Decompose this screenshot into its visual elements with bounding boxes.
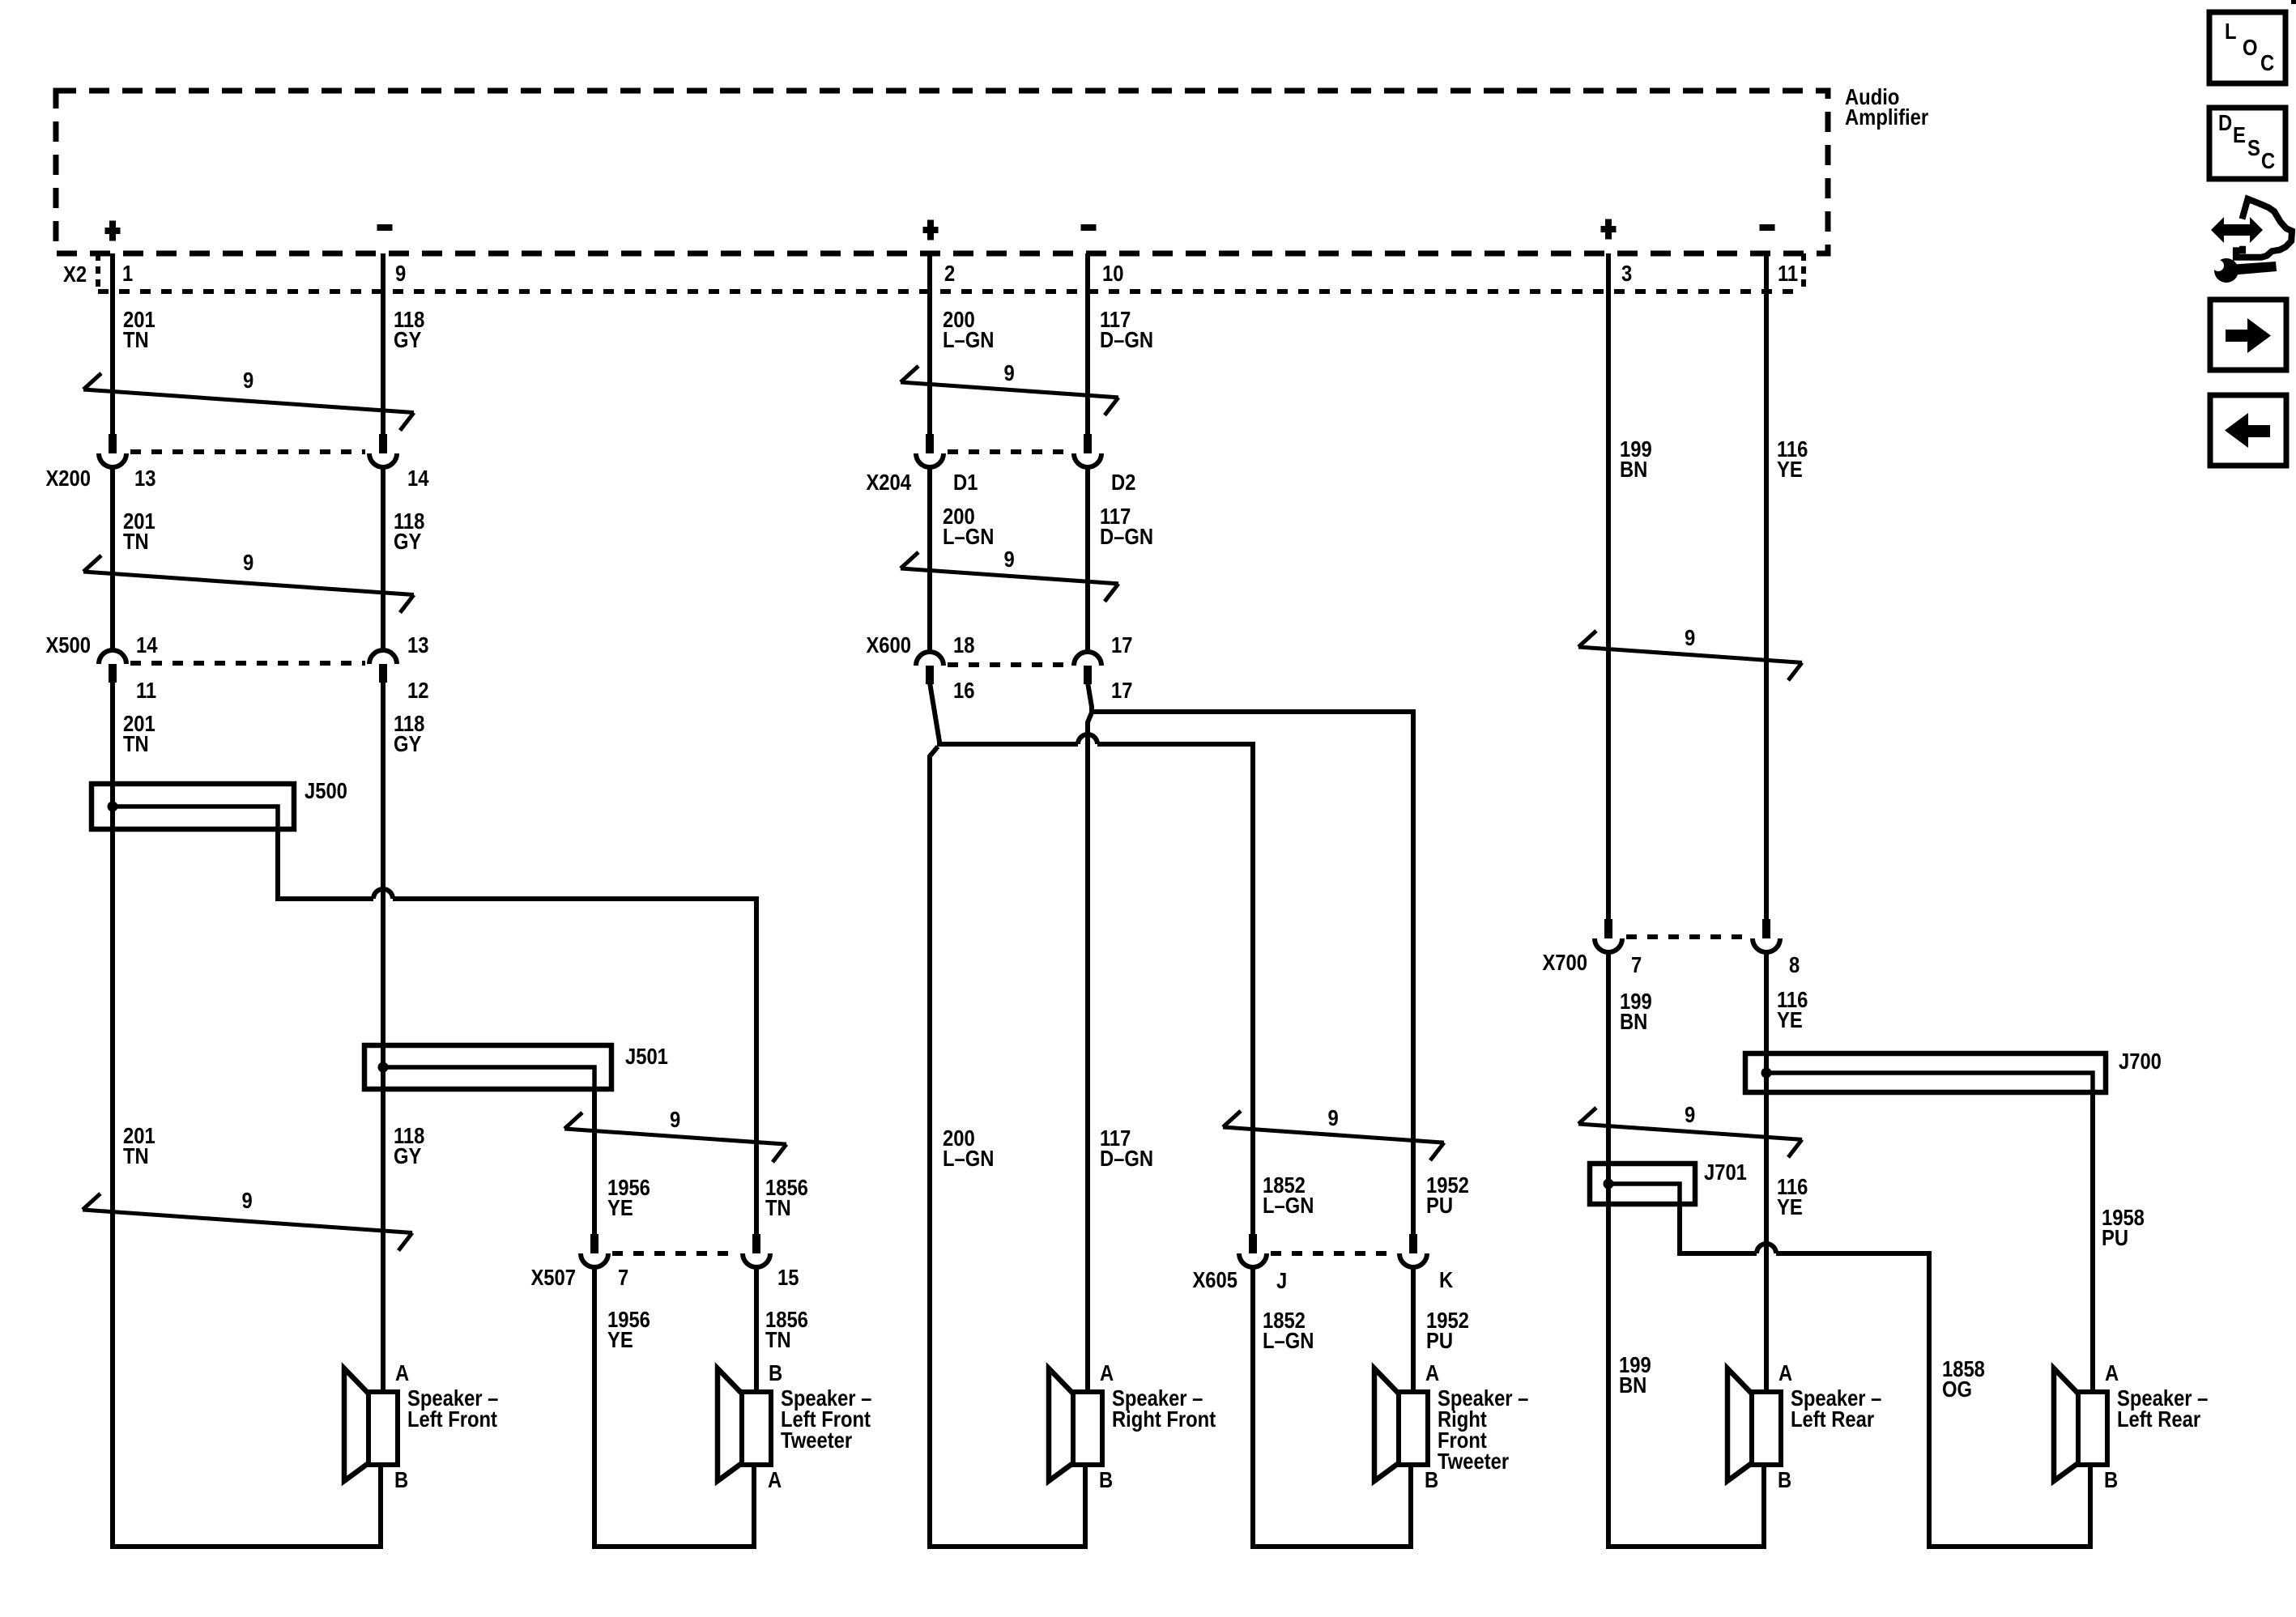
svg-text:GY: GY <box>394 1143 421 1168</box>
svg-text:9: 9 <box>1004 546 1015 572</box>
svg-text:B: B <box>1425 1466 1438 1492</box>
svg-text:11: 11 <box>136 677 156 703</box>
svg-text:13: 13 <box>134 465 155 491</box>
svg-text:B: B <box>1778 1466 1791 1492</box>
svg-text:TN: TN <box>123 528 149 554</box>
svg-text:YE: YE <box>607 1194 633 1220</box>
svg-text:D–GN: D–GN <box>1100 326 1153 352</box>
svg-text:7: 7 <box>1631 951 1642 977</box>
svg-text:TN: TN <box>765 1326 791 1352</box>
svg-text:16: 16 <box>953 677 974 703</box>
svg-text:X605: X605 <box>1192 1266 1237 1292</box>
svg-text:L–GN: L–GN <box>943 523 994 549</box>
svg-text:L: L <box>2225 18 2237 44</box>
svg-text:A: A <box>768 1466 782 1492</box>
svg-text:B: B <box>1099 1466 1113 1492</box>
svg-text:9: 9 <box>1685 624 1695 650</box>
svg-text:1: 1 <box>122 260 133 286</box>
svg-text:C: C <box>2260 49 2274 75</box>
svg-text:PU: PU <box>1426 1192 1453 1218</box>
svg-text:TN: TN <box>123 730 149 756</box>
svg-text:O: O <box>2243 34 2258 60</box>
svg-text:9: 9 <box>243 549 253 575</box>
svg-text:D–GN: D–GN <box>1100 1145 1153 1171</box>
svg-text:A: A <box>1100 1360 1114 1385</box>
svg-text:11: 11 <box>1778 260 1798 286</box>
svg-text:X700: X700 <box>1542 949 1587 975</box>
svg-text:BN: BN <box>1620 1008 1647 1034</box>
svg-text:A: A <box>1778 1360 1792 1385</box>
svg-text:12: 12 <box>407 677 428 703</box>
svg-text:C: C <box>2261 147 2275 173</box>
svg-text:17: 17 <box>1111 677 1132 703</box>
svg-text:14: 14 <box>407 465 429 491</box>
svg-text:9: 9 <box>243 367 253 393</box>
svg-text:OG: OG <box>1942 1376 1972 1402</box>
svg-text:Left Rear: Left Rear <box>2117 1406 2200 1432</box>
svg-text:YE: YE <box>1777 1006 1803 1032</box>
svg-text:A: A <box>1425 1360 1439 1385</box>
svg-text:BN: BN <box>1620 456 1647 482</box>
svg-text:Right Front: Right Front <box>1112 1406 1216 1432</box>
svg-text:D2: D2 <box>1111 469 1135 495</box>
svg-text:X2: X2 <box>63 261 87 287</box>
svg-text:L–GN: L–GN <box>943 326 994 352</box>
svg-text:K: K <box>1439 1266 1453 1292</box>
svg-text:2: 2 <box>944 260 955 286</box>
svg-text:J701: J701 <box>1704 1159 1747 1185</box>
svg-text:X200: X200 <box>45 465 91 491</box>
svg-text:X507: X507 <box>530 1264 576 1290</box>
svg-text:S: S <box>2247 134 2260 160</box>
svg-text:15: 15 <box>777 1264 799 1290</box>
svg-text:9: 9 <box>1685 1101 1695 1127</box>
svg-text:X204: X204 <box>866 469 911 495</box>
svg-text:9: 9 <box>1328 1104 1339 1130</box>
svg-text:D: D <box>2218 109 2232 135</box>
svg-text:YE: YE <box>607 1326 633 1352</box>
svg-text:7: 7 <box>618 1264 628 1290</box>
svg-text:TN: TN <box>123 1143 149 1168</box>
svg-text:J: J <box>1276 1267 1287 1293</box>
svg-text:B: B <box>769 1360 782 1385</box>
svg-text:TN: TN <box>123 326 149 352</box>
svg-text:X500: X500 <box>45 632 91 657</box>
svg-text:9: 9 <box>242 1187 253 1213</box>
svg-text:J501: J501 <box>625 1043 668 1069</box>
svg-text:X600: X600 <box>866 632 911 657</box>
svg-text:A: A <box>395 1360 409 1385</box>
svg-text:14: 14 <box>136 632 158 657</box>
svg-text:L–GN: L–GN <box>1263 1327 1314 1353</box>
svg-text:GY: GY <box>394 326 421 352</box>
svg-text:E: E <box>2233 121 2246 147</box>
svg-text:D1: D1 <box>953 469 978 495</box>
svg-text:18: 18 <box>953 632 974 657</box>
svg-text:PU: PU <box>2102 1224 2128 1250</box>
svg-text:Tweeter: Tweeter <box>781 1427 852 1453</box>
svg-text:YE: YE <box>1777 1194 1803 1219</box>
svg-text:Tweeter: Tweeter <box>1438 1448 1509 1474</box>
svg-text:B: B <box>2104 1466 2118 1492</box>
svg-text:GY: GY <box>394 730 421 756</box>
svg-text:10: 10 <box>1102 260 1123 286</box>
svg-text:J500: J500 <box>305 777 347 803</box>
svg-text:YE: YE <box>1777 456 1803 482</box>
svg-text:17: 17 <box>1111 632 1132 657</box>
svg-text:9: 9 <box>1004 360 1015 385</box>
svg-text:D–GN: D–GN <box>1100 523 1153 549</box>
svg-text:B: B <box>394 1466 408 1492</box>
svg-text:GY: GY <box>394 528 421 554</box>
svg-text:9: 9 <box>670 1106 680 1132</box>
svg-text:8: 8 <box>1789 951 1800 977</box>
svg-text:Left Front: Left Front <box>407 1406 497 1432</box>
svg-text:A: A <box>2105 1360 2119 1385</box>
svg-text:L–GN: L–GN <box>943 1145 994 1171</box>
svg-text:3: 3 <box>1621 260 1632 286</box>
svg-text:Amplifier: Amplifier <box>1845 104 1928 130</box>
svg-text:TN: TN <box>765 1194 791 1220</box>
svg-text:J700: J700 <box>2119 1048 2162 1074</box>
svg-text:L–GN: L–GN <box>1263 1192 1314 1218</box>
svg-text:Left Rear: Left Rear <box>1791 1406 1874 1432</box>
svg-text:PU: PU <box>1426 1327 1453 1353</box>
svg-text:9: 9 <box>395 260 406 286</box>
svg-text:13: 13 <box>407 632 428 657</box>
svg-text:BN: BN <box>1619 1372 1646 1398</box>
